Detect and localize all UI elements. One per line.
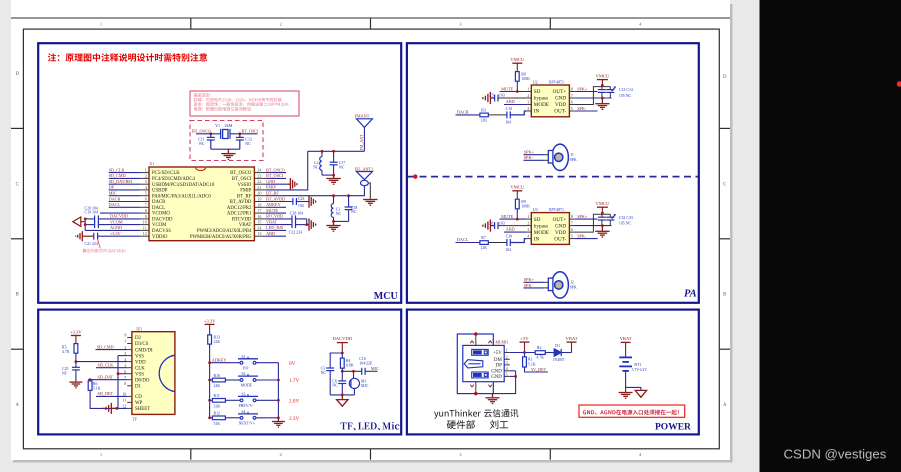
svg-text:ADC12/PR2: ADC12/PR2 <box>227 206 252 211</box>
svg-text:+5V: +5V <box>520 336 529 341</box>
svg-text:19: 19 <box>257 197 261 202</box>
svg-text:VMCU: VMCU <box>596 73 610 78</box>
zone letters right <box>723 75 727 408</box>
svg-text:1: 1 <box>527 214 529 219</box>
resistor R11 33K <box>210 399 213 401</box>
svg-text:C15: C15 <box>487 94 494 98</box>
amplifier U2 XPT4871 <box>531 85 569 117</box>
svg-text:1: 1 <box>124 339 126 344</box>
svg-text:DACVSS: DACVSS <box>152 229 171 234</box>
svg-text:2: 2 <box>145 173 147 178</box>
svg-text:C: C <box>16 182 19 187</box>
svg-text:+3.3V: +3.3V <box>70 329 82 334</box>
wire DACVDD row9 <box>85 218 140 220</box>
svg-text:MODE: MODE <box>534 102 549 108</box>
capacitor C28 <box>292 215 296 222</box>
diode D1 1N4007 <box>554 349 561 356</box>
switch S4 NEXT/V+ <box>238 412 258 419</box>
svg-text:2: 2 <box>527 221 529 226</box>
wire D1 to VBAT <box>561 352 571 354</box>
USB pin numbers <box>506 348 509 377</box>
svg-text:6: 6 <box>571 100 573 105</box>
svg-text:SD_CLK: SD_CLK <box>98 362 114 367</box>
svg-text:3: 3 <box>527 227 529 232</box>
wire GND row <box>266 183 288 185</box>
chip U1 notch <box>195 167 205 171</box>
analog ground (mic) <box>337 395 348 406</box>
svg-text:8: 8 <box>571 87 573 92</box>
svg-text:ABD: ABD <box>506 226 515 231</box>
TF section title <box>341 422 400 430</box>
svg-text:SPK+: SPK+ <box>524 277 535 282</box>
wire BT antenna to ground branch <box>368 183 370 199</box>
wire R3 to C10 <box>488 114 507 116</box>
svg-text:MIC: MIC <box>361 384 369 388</box>
svg-text:6: 6 <box>124 369 126 374</box>
svg-text:SD: SD <box>534 217 541 223</box>
BT antenna matching ellipse <box>361 180 369 185</box>
capacitor C13 <box>598 87 606 98</box>
wire ABD to pin3 <box>504 231 527 233</box>
svg-text:11: 11 <box>122 398 126 403</box>
svg-text:VCOM: VCOM <box>152 223 167 228</box>
svg-text:bypass: bypass <box>534 96 548 102</box>
junction dot +5V node <box>523 351 526 354</box>
U2 pin names <box>534 89 549 115</box>
resistor R1 5.1K <box>524 353 526 357</box>
svg-text:BT_ANT1: BT_ANT1 <box>355 166 373 171</box>
wire VSS tie vertical <box>117 356 119 409</box>
ground left of C21 <box>76 231 83 241</box>
PA dashed separator <box>408 176 698 178</box>
crystal dashed box <box>190 121 263 161</box>
svg-text:10: 10 <box>122 392 126 397</box>
crystal notes box <box>190 91 299 116</box>
svg-text:100K: 100K <box>521 77 530 81</box>
wire S2 to right bus <box>256 379 279 381</box>
svg-text:MUSB1: MUSB1 <box>496 341 509 345</box>
svg-text:R8: R8 <box>521 72 526 76</box>
svg-text:C: C <box>723 182 726 187</box>
wire ABD to pin3 <box>504 104 527 106</box>
capacitor C12 <box>236 134 244 149</box>
junction dot VMCU top <box>601 212 604 215</box>
svg-text:3: 3 <box>145 179 147 184</box>
red dot on separator <box>413 174 417 178</box>
power port VMCU (U3 supply) <box>597 207 608 214</box>
svg-text:R9: R9 <box>521 200 526 204</box>
svg-text:DACL: DACL <box>457 237 469 242</box>
svg-text:D3/CS: D3/CS <box>135 342 149 347</box>
svg-text:VBAT: VBAT <box>266 219 277 224</box>
frame tick right 2 <box>719 238 730 240</box>
svg-text:D1: D1 <box>135 385 142 390</box>
svg-text:BT_OSCI: BT_OSCI <box>266 173 284 178</box>
capacitor C18 <box>345 196 353 222</box>
svg-text:6.8K: 6.8K <box>346 363 354 367</box>
svg-text:3: 3 <box>124 351 126 356</box>
junction dot crystal left <box>209 132 212 135</box>
capacitor C33 <box>606 214 615 225</box>
svg-text:8: 8 <box>145 208 147 213</box>
frame tick left 1 <box>11 127 23 129</box>
svg-text:33K: 33K <box>214 404 221 408</box>
svg-text:NC: NC <box>313 165 319 169</box>
wire GND pins to ground <box>493 371 516 394</box>
USB glyph top receptacle <box>472 349 489 355</box>
svg-text:D1: D1 <box>555 344 560 348</box>
junction dot crystal right <box>238 132 241 135</box>
frame tick bottom 1 <box>190 449 192 460</box>
junction dot L2 top <box>321 150 324 153</box>
svg-text:BT_RF: BT_RF <box>266 191 279 196</box>
svg-text:SD_DAT: SD_DAT <box>98 374 114 379</box>
junction dot mic bottom <box>341 394 344 397</box>
svg-text:FMIP: FMIP <box>266 185 276 190</box>
svg-text:ABD: ABD <box>506 99 515 104</box>
resistor R4 6.8K <box>341 353 343 358</box>
svg-text:C10: C10 <box>506 107 513 111</box>
red dot right edge <box>897 81 901 87</box>
svg-text:2.3V: 2.3V <box>289 416 299 422</box>
resistor R2 4.7K <box>535 351 545 355</box>
svg-text:DACVDD: DACVDD <box>110 214 128 219</box>
resistor R13 22K <box>208 335 212 344</box>
junction dot bias node <box>341 370 344 373</box>
svg-text:WP: WP <box>135 401 143 406</box>
zone numbers bottom <box>100 452 642 457</box>
wire C23 to ground <box>296 201 308 203</box>
ground USB <box>486 394 500 404</box>
switch S1 P/P <box>238 357 258 365</box>
svg-text:R10: R10 <box>214 374 221 378</box>
svg-text:2.0V: 2.0V <box>289 399 299 405</box>
svg-text:SPK+: SPK+ <box>577 214 588 219</box>
power port VMCU (U3 bias) <box>512 191 522 199</box>
svg-text:XPT4871: XPT4871 <box>549 80 565 85</box>
wire R1 to 5V_DET <box>525 367 548 372</box>
svg-text:VMCU: VMCU <box>510 185 524 190</box>
FM antenna symbol <box>356 119 372 128</box>
USB mount pin marks <box>470 341 492 387</box>
svg-text:C32 C33: C32 C33 <box>619 216 633 220</box>
svg-text:GND: GND <box>555 96 566 102</box>
wire R4 to bias node <box>341 368 343 371</box>
svg-text:C13 C14: C13 C14 <box>619 88 633 92</box>
capacitor C3 NC <box>326 368 334 371</box>
svg-text:2: 2 <box>506 354 508 359</box>
svg-text:DACVDD: DACVDD <box>332 336 352 341</box>
wire MUTE to pin1 <box>500 91 527 93</box>
svg-text:104/22E: 104/22E <box>359 362 373 366</box>
note title text <box>48 53 207 62</box>
svg-text:5V_DET: 5V_DET <box>531 367 547 372</box>
svg-text:7: 7 <box>145 202 147 207</box>
wire R11 to S3 <box>225 399 240 401</box>
junction dot row9 <box>84 218 87 221</box>
crystal note line4 <box>194 107 251 111</box>
PA section border <box>407 43 699 303</box>
hw engineer text <box>490 420 508 429</box>
zone letters left <box>15 72 19 408</box>
svg-text:3.7V-4.2V: 3.7V-4.2V <box>632 368 648 372</box>
frame tick left 3 <box>11 348 23 350</box>
ground right of C22 <box>309 218 316 230</box>
capacitor C10 104 <box>507 111 510 118</box>
crystal note line1 <box>194 93 211 97</box>
svg-text:S1: S1 <box>241 355 245 359</box>
USB glyph bottom receptacle <box>472 372 489 378</box>
svg-text:XPT4871: XPT4871 <box>549 207 565 212</box>
svg-text:18: 18 <box>257 202 261 207</box>
capacitor C23 <box>293 198 297 205</box>
svg-text:23: 23 <box>257 173 261 178</box>
U3 pin names <box>534 217 549 243</box>
ground BT antenna <box>363 200 377 206</box>
svg-text:PC5/SD1CLK: PC5/SD1CLK <box>152 171 180 176</box>
svg-text:SD_DAT/BM: SD_DAT/BM <box>109 179 133 184</box>
svg-text:DACL: DACL <box>152 206 165 211</box>
wire RTCVDD row <box>266 219 307 225</box>
ground L3C18 <box>326 221 340 231</box>
junction dot VMCU bottom <box>601 224 604 227</box>
svg-text:BT_AVDD: BT_AVDD <box>230 200 252 205</box>
MCU section border <box>38 43 401 303</box>
ground (bypass, left) <box>483 92 495 104</box>
svg-text:R1: R1 <box>528 358 533 362</box>
svg-text:OUT-: OUT- <box>554 109 566 115</box>
yunThinker text <box>434 409 518 419</box>
TF1 pin stubs <box>127 338 132 409</box>
svg-text:C28 104: C28 104 <box>290 212 303 216</box>
wire VDD node to TF1 pin4 <box>76 361 127 363</box>
TF1 card arc <box>159 355 175 391</box>
svg-text:DACL: DACL <box>109 202 121 207</box>
svg-text:C22 224: C22 224 <box>289 231 302 235</box>
svg-text:21: 21 <box>257 185 261 190</box>
USB glyph middle plug <box>464 360 483 368</box>
U1 right pin names <box>190 171 252 240</box>
svg-text:LED_R/B: LED_R/B <box>266 225 283 230</box>
svg-text:D0/DO: D0/DO <box>135 378 150 383</box>
svg-text:VBAT: VBAT <box>620 336 632 341</box>
svg-text:DACR: DACR <box>152 200 166 205</box>
capacitor C15 103 <box>495 95 498 102</box>
svg-text:10: 10 <box>143 220 147 225</box>
svg-text:SPK-: SPK- <box>577 234 587 239</box>
svg-text:DM: DM <box>494 358 503 363</box>
svg-text:C23: C23 <box>298 197 305 201</box>
svg-text:105 NC: 105 NC <box>619 94 632 98</box>
svg-text:SPK-: SPK- <box>524 155 534 160</box>
ground FM network <box>326 175 340 184</box>
USB pin stubs <box>504 353 510 377</box>
svg-text:VDDIO: VDDIO <box>152 235 168 240</box>
pink note DACVDD <box>83 249 126 253</box>
svg-text:MIC: MIC <box>371 366 379 371</box>
svg-text:CD: CD <box>135 395 142 400</box>
svg-text:A: A <box>15 403 19 408</box>
svg-text:100K: 100K <box>521 205 530 209</box>
crystal Y1 symbol <box>221 129 230 139</box>
wire C21 to ground <box>83 235 94 237</box>
crystal note line3 <box>194 102 289 106</box>
svg-text:RTCVDD: RTCVDD <box>232 218 252 223</box>
wire ADKEY left bus <box>209 344 211 418</box>
wire FM antenna stem <box>363 127 365 151</box>
svg-text:IN: IN <box>534 109 540 115</box>
svg-text:2: 2 <box>527 93 529 98</box>
svg-text:26M: 26M <box>225 123 233 128</box>
svg-text:SD_DET: SD_DET <box>98 391 114 396</box>
svg-text:PA: PA <box>684 289 697 300</box>
U1 right plain wires <box>266 173 286 237</box>
svg-text:FM_ANT: FM_ANT <box>359 134 364 151</box>
svg-text:BT_OSCI: BT_OSCI <box>232 177 252 182</box>
svg-text:C30: C30 <box>506 235 513 239</box>
svg-text:A: A <box>723 403 727 408</box>
wire battery to grounds <box>625 371 627 392</box>
svg-text:11: 11 <box>143 225 147 230</box>
wire DACR to R3 <box>456 114 480 116</box>
zone numbers top <box>100 21 642 26</box>
wire SD_DAT <box>88 379 127 381</box>
capacitor C21 <box>94 233 98 240</box>
svg-text:BT_AVDD: BT_AVDD <box>266 196 285 201</box>
frame tick top 2 <box>370 18 372 29</box>
svg-text:C31: C31 <box>487 221 494 225</box>
svg-text:5.1K: 5.1K <box>528 362 536 366</box>
ground right of C23 <box>309 195 316 207</box>
svg-text:VDD: VDD <box>555 230 566 236</box>
svg-text:DACR: DACR <box>457 109 469 114</box>
svg-text:51K: 51K <box>214 422 221 426</box>
svg-text:NC: NC <box>62 371 68 375</box>
svg-text:NC: NC <box>321 371 327 375</box>
warning text <box>583 410 679 415</box>
C21 leader line <box>97 239 100 248</box>
svg-text:D: D <box>15 72 19 77</box>
svg-text:OUT+: OUT+ <box>553 217 567 223</box>
svg-text:VCOM: VCOM <box>110 219 123 224</box>
svg-text:VDD: VDD <box>555 102 566 108</box>
wire VDD pin6 <box>574 214 610 232</box>
svg-text:PWM3/ADC8/AUX0L/PB4: PWM3/ADC8/AUX0L/PB4 <box>197 229 252 234</box>
svg-text:D2: D2 <box>135 336 142 341</box>
svg-text:SPK-: SPK- <box>524 283 534 288</box>
svg-text:MIC: MIC <box>109 191 117 196</box>
junction dot MUTE node <box>516 218 519 221</box>
wire SD_CLK <box>96 367 127 369</box>
svg-text:BT1: BT1 <box>634 363 641 367</box>
frame tick right 3 <box>719 348 730 350</box>
junction dot M1 top <box>352 370 355 373</box>
power port VMCU (U2 bias) <box>512 63 522 71</box>
svg-text:NEXT/V+: NEXT/V+ <box>239 421 255 425</box>
U1 right pin stubs <box>254 173 265 237</box>
microphone M1 <box>349 371 359 395</box>
U1 left pin stubs <box>140 173 149 237</box>
svg-text:5.1K: 5.1K <box>93 386 101 390</box>
wire R8 to MUTE node <box>516 81 518 91</box>
wire +5V pin to node <box>510 352 535 354</box>
svg-text:0V: 0V <box>289 361 296 367</box>
svg-text:PWMH2H/ADC9/AUX0R/PB5: PWMH2H/ADC9/AUX0R/PB5 <box>190 235 252 240</box>
junction dot VDD node <box>75 360 78 363</box>
svg-text:C21 224: C21 224 <box>85 242 98 246</box>
svg-text:12: 12 <box>143 231 147 236</box>
svg-text:1.7V: 1.7V <box>289 378 299 384</box>
ground below C25 <box>69 382 82 388</box>
U1 left net labels <box>109 167 133 236</box>
svg-text:ADKEY: ADKEY <box>212 357 227 362</box>
svg-text:7: 7 <box>124 375 126 380</box>
capacitor C19 <box>95 221 99 228</box>
svg-text:GND: GND <box>491 375 502 380</box>
wire MUTE to pin1 <box>500 218 527 220</box>
svg-text:ABD: ABD <box>266 231 275 236</box>
svg-text:GND: GND <box>555 223 566 229</box>
sheet frame outer top line <box>11 17 730 19</box>
svg-text:SD_CMD: SD_CMD <box>109 173 126 178</box>
svg-text:BT_OSCO: BT_OSCO <box>192 128 211 133</box>
wire C30 to pin4 <box>510 239 526 243</box>
svg-text:SD: SD <box>534 89 541 95</box>
svg-text:OUT-: OUT- <box>554 236 566 242</box>
svg-text:9: 9 <box>124 333 126 338</box>
svg-text:1: 1 <box>506 348 508 353</box>
svg-text:C3: C3 <box>321 367 326 371</box>
USB shell junction dots <box>474 332 477 335</box>
svg-text:BT_OSCI: BT_OSCI <box>242 128 260 133</box>
hw dept text <box>447 420 475 429</box>
wire R7 to C30 <box>488 242 507 244</box>
svg-text:3: 3 <box>527 100 529 105</box>
white schematic page <box>11 0 730 460</box>
junction dots left bus <box>208 361 211 364</box>
junction dot L3 top <box>332 194 335 197</box>
wire bias node to C16 <box>342 370 361 372</box>
svg-text:MCU: MCU <box>374 291 398 302</box>
svg-text:VSSIO: VSSIO <box>238 183 252 188</box>
switch S2 MODE <box>238 374 258 382</box>
svg-text:DP: DP <box>109 185 115 190</box>
svg-text:CMD/DI: CMD/DI <box>135 348 153 353</box>
svg-text:U3: U3 <box>533 207 538 212</box>
svg-text:VBAT: VBAT <box>566 336 578 341</box>
svg-text:NC: NC <box>245 141 251 146</box>
svg-text:R13: R13 <box>214 336 221 340</box>
inductor L2 <box>320 151 322 175</box>
U3 pin numbers <box>527 214 573 239</box>
BT antenna symbol <box>356 172 372 180</box>
svg-text:13: 13 <box>257 231 261 236</box>
svg-text:NC: NC <box>332 384 338 388</box>
TF1 pin names <box>135 336 153 412</box>
svg-text:BT_RF: BT_RF <box>237 194 252 199</box>
svg-text:USBDM/PC3/SD1DAT/ADC10: USBDM/PC3/SD1DAT/ADC10 <box>152 183 215 188</box>
wire SD_DET <box>96 395 127 397</box>
capacitor C25 NC <box>72 362 80 382</box>
svg-text:12: 12 <box>122 404 126 409</box>
svg-text:S2: S2 <box>241 372 245 376</box>
svg-text:U1: U1 <box>150 162 155 166</box>
svg-text:1N4007: 1N4007 <box>553 358 565 362</box>
wire ADKEY row to S1 <box>210 362 241 364</box>
resistor R6 5.1K <box>88 381 92 390</box>
USB shell stubs <box>475 334 477 394</box>
resistor R9 100K <box>515 199 519 209</box>
